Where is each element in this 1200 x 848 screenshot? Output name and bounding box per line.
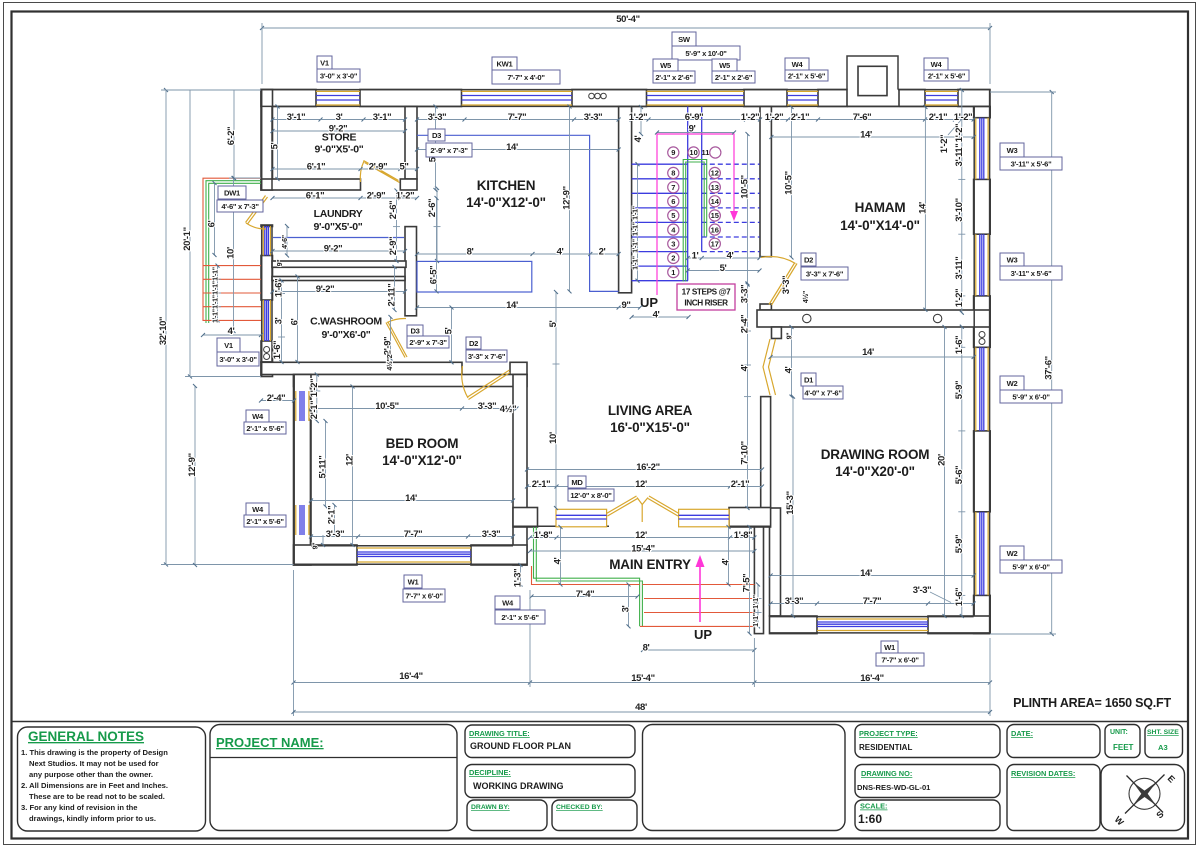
dim 7'-5" porch <box>749 527 751 634</box>
label W1 drawing <box>876 641 924 666</box>
svg-text:15: 15 <box>711 211 719 220</box>
svg-text:8': 8' <box>467 247 474 258</box>
door D2 corridor leaf and arc <box>462 366 510 400</box>
title block separator line <box>12 721 1189 723</box>
svg-text:W3: W3 <box>1007 146 1018 155</box>
svg-text:DRAWING TITLE:: DRAWING TITLE: <box>469 729 530 738</box>
svg-text:1'-1": 1'-1" <box>213 309 220 323</box>
svg-text:DW1: DW1 <box>224 189 241 198</box>
bedroom right wall <box>513 375 527 566</box>
label D3 washroom <box>407 325 449 348</box>
top wall band continuous edge lines <box>261 90 990 107</box>
svg-text:2'-1" x 2'-6": 2'-1" x 2'-6" <box>655 73 693 82</box>
hamam bottom wall column circles <box>803 314 811 322</box>
drawing room bottom wall right block <box>928 616 990 634</box>
svg-text:14'-0"X14'-0": 14'-0"X14'-0" <box>840 218 920 233</box>
svg-text:5': 5' <box>548 320 559 327</box>
svg-text:16: 16 <box>711 225 719 234</box>
window W4 bedroom left b <box>296 505 309 535</box>
svg-text:5': 5' <box>270 142 281 149</box>
svg-text:MD: MD <box>571 478 583 487</box>
svg-text:6'-1": 6'-1" <box>306 191 325 202</box>
top wall band right corner <box>958 90 990 107</box>
svg-text:9'-2": 9'-2" <box>324 244 343 255</box>
dim row store/kitchen top <box>273 119 619 121</box>
svg-text:8: 8 <box>671 169 675 178</box>
svg-text:9: 9 <box>671 148 675 157</box>
svg-text:KW1: KW1 <box>497 60 514 69</box>
svg-text:W4: W4 <box>252 505 264 514</box>
svg-text:PROJECT NAME:: PROJECT NAME: <box>216 735 324 750</box>
svg-text:14'-0"X12'-0": 14'-0"X12'-0" <box>382 453 462 468</box>
svg-text:These are to be read not to be: These are to be read not to be scaled. <box>29 792 165 801</box>
dim 20' drawing room <box>944 327 946 616</box>
svg-text:W2: W2 <box>1007 549 1018 558</box>
svg-text:1'-2": 1'-2" <box>954 124 965 143</box>
svg-text:5'-9" x 6'-0": 5'-9" x 6'-0" <box>1012 563 1050 572</box>
window W4 top a <box>787 91 818 105</box>
dim 4' porch right <box>728 527 730 585</box>
kitchen counter L-line <box>417 135 619 291</box>
svg-text:3'-1": 3'-1" <box>287 112 306 123</box>
svg-text:3'-3": 3'-3" <box>781 276 792 295</box>
svg-text:14': 14' <box>860 568 872 579</box>
svg-text:W3: W3 <box>1007 256 1018 265</box>
title block: compass box <box>1101 765 1185 831</box>
title block: checked by box <box>552 800 637 831</box>
svg-text:C.WASHROOM: C.WASHROOM <box>310 316 382 328</box>
dim laundry-kitchen opening columns <box>393 191 400 262</box>
label W5 a <box>653 59 695 83</box>
svg-text:W1: W1 <box>884 643 896 652</box>
svg-text:GROUND FLOOR PLAN: GROUND FLOOR PLAN <box>470 741 571 751</box>
svg-text:6'-5": 6'-5" <box>429 266 440 285</box>
window W1 bedroom bottom <box>357 548 471 562</box>
dim 2'-9" washroom door <box>390 317 392 359</box>
store bottom wall right part <box>400 179 417 190</box>
dim 10'-5" hamam <box>791 107 793 258</box>
svg-text:17 STEPS @7: 17 STEPS @7 <box>682 288 731 297</box>
svg-text:1'-1": 1'-1" <box>753 613 760 627</box>
dim bottom row 16'-4" 15'-4" 16'-4" <box>294 570 991 716</box>
dim 12' bedroom <box>352 387 354 546</box>
svg-text:3'-0" x 3'-0": 3'-0" x 3'-0" <box>219 355 257 364</box>
svg-text:10'-5": 10'-5" <box>740 175 751 198</box>
svg-text:LAUNDRY: LAUNDRY <box>314 208 363 220</box>
svg-text:2'-9" x 7'-3": 2'-9" x 7'-3" <box>430 146 468 155</box>
label W4 porch <box>495 596 545 624</box>
svg-text:7'-4": 7'-4" <box>576 589 595 600</box>
label D1 <box>801 373 843 399</box>
title block: date box <box>1007 725 1100 758</box>
living bottom wall outer edge segments <box>513 525 771 527</box>
window W4 bedroom left a <box>296 391 309 421</box>
dim 14' bedroom <box>311 500 513 502</box>
side entry green border <box>206 181 261 323</box>
svg-text:12'-9": 12'-9" <box>187 453 198 476</box>
svg-text:3'-3": 3'-3" <box>785 596 804 607</box>
svg-text:PROJECT TYPE:: PROJECT TYPE: <box>859 729 918 738</box>
svg-text:3'-11": 3'-11" <box>954 257 965 280</box>
right wall bottom corner block <box>974 595 991 633</box>
title block: decipline box <box>465 765 635 798</box>
svg-text:1'-2": 1'-2" <box>309 379 320 398</box>
dim 7'-4" entry steps <box>532 596 638 598</box>
svg-text:DATE:: DATE: <box>1011 729 1033 738</box>
svg-text:17: 17 <box>711 240 719 249</box>
svg-text:16'-2": 16'-2" <box>636 462 659 473</box>
svg-text:6'-2": 6'-2" <box>226 127 237 146</box>
dim 9" 4' drawing door <box>791 327 793 397</box>
right wall top corner block <box>974 107 991 118</box>
svg-text:3'-3": 3'-3" <box>326 529 345 540</box>
svg-text:3'-10": 3'-10" <box>954 198 965 221</box>
dim 2'-11" washroom right <box>394 267 396 310</box>
svg-text:3': 3' <box>621 605 632 612</box>
dim 5' 10' living left <box>553 292 560 508</box>
window KW1 <box>462 91 573 105</box>
svg-text:1'-2": 1'-2" <box>741 112 760 123</box>
svg-text:2'-9": 2'-9" <box>367 191 386 202</box>
svg-text:3: 3 <box>671 240 675 249</box>
left wall between laundry and washroom windows <box>261 256 273 301</box>
dim row hamam top <box>771 119 973 121</box>
title block: sheet size box <box>1145 725 1183 758</box>
svg-text:2'-1" x 5'-6": 2'-1" x 5'-6" <box>928 72 966 81</box>
window SW <box>647 91 745 105</box>
window laundry left <box>263 226 270 256</box>
dim 14' hamam <box>771 136 973 138</box>
stair step numbers <box>671 148 720 277</box>
main entry red steps <box>532 566 755 626</box>
dim 50'-4" top <box>262 23 990 84</box>
svg-text:7'-6": 7'-6" <box>853 112 872 123</box>
svg-text:14'-0"X12'-0": 14'-0"X12'-0" <box>466 195 546 210</box>
title block: project type box <box>855 725 1000 758</box>
svg-text:4': 4' <box>557 247 564 258</box>
svg-text:2'-1": 2'-1" <box>532 479 551 490</box>
dim 1'-1' porch steps ticks <box>755 585 762 627</box>
dim row drawing bottom <box>771 603 974 605</box>
dim 9" bedroom corner <box>322 535 324 545</box>
svg-text:1'-1": 1'-1" <box>633 256 640 270</box>
svg-text:2: 2 <box>671 254 675 263</box>
window washroom left <box>263 300 270 341</box>
laundry counter blue line <box>273 237 404 239</box>
label W4 top b <box>924 58 969 81</box>
living area bottom wall left block <box>513 508 538 528</box>
svg-text:2'-4": 2'-4" <box>740 315 751 334</box>
svg-text:7'-7": 7'-7" <box>863 596 882 607</box>
label W3 right b <box>1000 253 1062 280</box>
svg-text:16'-0"X15'-0": 16'-0"X15'-0" <box>610 420 690 435</box>
svg-text:12': 12' <box>635 530 647 541</box>
svg-text:W5: W5 <box>660 61 672 70</box>
dim 6' side steps <box>214 183 216 255</box>
svg-text:UNIT:: UNIT: <box>1110 729 1128 736</box>
svg-text:5'-6": 5'-6" <box>954 466 965 485</box>
svg-text:BED ROOM: BED ROOM <box>386 436 459 451</box>
svg-text:3'-3": 3'-3" <box>428 112 447 123</box>
svg-text:WORKING DRAWING: WORKING DRAWING <box>473 781 564 791</box>
svg-text:3'-3": 3'-3" <box>584 112 603 123</box>
svg-text:V1: V1 <box>224 341 234 350</box>
dim row 1'-8" 12' 1'-8" porch <box>530 537 754 539</box>
svg-text:1'-2": 1'-2" <box>939 135 950 154</box>
svg-text:13: 13 <box>711 183 719 192</box>
svg-text:3. For any kind of revision in: 3. For any kind of revision in the <box>21 803 137 812</box>
dim 6'-5" kitchen counter <box>436 198 438 291</box>
svg-text:10'-5": 10'-5" <box>375 401 398 412</box>
title block: logo empty box <box>643 725 846 831</box>
svg-text:1'-1": 1'-1" <box>633 206 640 220</box>
svg-text:2'-4": 2'-4" <box>267 393 286 404</box>
svg-text:14': 14' <box>405 493 417 504</box>
svg-text:W4: W4 <box>252 412 264 421</box>
svg-text:3'-3" x 7'-6": 3'-3" x 7'-6" <box>468 352 506 361</box>
svg-text:1'-8": 1'-8" <box>734 530 753 541</box>
svg-text:9': 9' <box>689 124 696 135</box>
svg-text:7'-10": 7'-10" <box>740 441 751 464</box>
svg-text:1'-1": 1'-1" <box>633 239 640 253</box>
svg-text:DRAWING NO:: DRAWING NO: <box>861 769 912 778</box>
dim right wall column <box>958 90 965 313</box>
svg-text:12'-0" x 8'-0": 12'-0" x 8'-0" <box>570 491 612 500</box>
svg-text:1. This drawing is the propert: 1. This drawing is the property of Desig… <box>21 748 168 757</box>
dim washroom left column <box>278 281 285 363</box>
svg-text:2'-1" x 5'-6": 2'-1" x 5'-6" <box>246 424 284 433</box>
washroom top wall line <box>272 277 405 281</box>
svg-text:W2: W2 <box>1007 379 1018 388</box>
label DW1 <box>217 186 263 212</box>
title block: revision dates box <box>1007 765 1100 831</box>
bedroom left wall <box>294 375 312 566</box>
svg-text:KITCHEN: KITCHEN <box>477 178 536 193</box>
dim 14' 9" kitchen bottom <box>417 307 640 309</box>
dim 9' stair top <box>657 132 734 134</box>
label W1 bedroom <box>403 575 445 602</box>
svg-text:2. All Dimensions are in Feet: 2. All Dimensions are in Feet and Inches… <box>21 781 168 790</box>
kitchen counter rect <box>417 261 532 292</box>
svg-text:4': 4' <box>784 366 795 373</box>
svg-text:4': 4' <box>633 135 644 142</box>
dim 6'-2" left <box>229 90 261 178</box>
svg-text:FEET: FEET <box>1113 743 1134 752</box>
svg-text:37'-6": 37'-6" <box>1044 356 1055 379</box>
svg-text:UP: UP <box>640 295 658 310</box>
label W4 left a <box>244 410 286 434</box>
right wall continuous edge lines <box>974 90 989 634</box>
dim row store bottom <box>273 168 418 170</box>
title block: drawing title box <box>465 725 635 758</box>
svg-text:9'-2": 9'-2" <box>316 284 335 295</box>
dim 14' kitchen <box>417 149 619 151</box>
svg-text:any purpose other than the own: any purpose other than the owner. <box>29 770 153 779</box>
svg-text:15'-4": 15'-4" <box>631 673 654 684</box>
svg-text:2'-9": 2'-9" <box>369 162 388 173</box>
window W2 right b <box>976 512 988 596</box>
svg-text:3'-11": 3'-11" <box>954 144 965 167</box>
svg-text:9'-0"X5'-0": 9'-0"X5'-0" <box>314 144 363 156</box>
svg-text:11: 11 <box>702 148 710 157</box>
dim 5' store left <box>277 107 279 180</box>
svg-text:2'-1": 2'-1" <box>929 112 948 123</box>
store right wall <box>405 107 417 180</box>
svg-text:4': 4' <box>721 558 732 565</box>
dim 2'-4" bedroom left <box>261 400 294 402</box>
svg-text:4'-6" x 7'-3": 4'-6" x 7'-3" <box>221 202 259 211</box>
leader 3'-3" drawing room <box>930 592 951 603</box>
svg-text:4'-6": 4'-6" <box>282 235 289 249</box>
stair magenta route <box>657 134 734 295</box>
chimney bump <box>847 56 898 90</box>
svg-text:1'-2": 1'-2" <box>954 289 965 308</box>
door MD double leaves <box>607 496 680 522</box>
dim 5' corridor left <box>451 308 453 363</box>
svg-text:REVISION DATES:: REVISION DATES: <box>1011 769 1075 778</box>
svg-text:7'-5": 7'-5" <box>742 574 753 593</box>
svg-text:4': 4' <box>228 326 235 337</box>
svg-text:3'-3": 3'-3" <box>740 285 751 304</box>
label D2 hamam <box>801 253 848 280</box>
svg-text:2'-9" x 7'-3": 2'-9" x 7'-3" <box>409 338 447 347</box>
svg-text:3'-3" x 7'-6": 3'-3" x 7'-6" <box>806 270 844 279</box>
svg-text:1:60: 1:60 <box>858 812 882 826</box>
svg-text:1'-2": 1'-2" <box>765 112 784 123</box>
hamam bottom wall band <box>757 310 990 327</box>
stair treads right flight dashed <box>702 164 760 251</box>
svg-text:W4: W4 <box>792 60 804 69</box>
svg-text:drawings, kindly inform prior: drawings, kindly inform prior to us. <box>29 814 156 823</box>
dim row kitchen counter 8' 4' 2' <box>417 253 619 255</box>
svg-text:4': 4' <box>653 310 660 321</box>
svg-text:4½": 4½" <box>500 404 517 415</box>
svg-text:DRAWING ROOM: DRAWING ROOM <box>821 447 930 462</box>
window W1 drawing room bottom <box>817 619 928 631</box>
stair note box 17 steps <box>677 284 735 310</box>
svg-text:5'-9": 5'-9" <box>954 535 965 554</box>
svg-text:6'-9": 6'-9" <box>685 112 704 123</box>
left wall segment below DW1 <box>261 225 273 227</box>
dim 14' drawing room top <box>771 356 974 358</box>
svg-text:3'-0" x 3'-0": 3'-0" x 3'-0" <box>320 72 358 81</box>
door D1 folding <box>763 339 776 395</box>
window W3 right a <box>976 118 988 180</box>
kitchen left wall <box>405 227 417 316</box>
dim 1'-1" stairwell ticks <box>637 164 639 281</box>
svg-text:Next Studios. It may not be us: Next Studios. It may not be used for <box>29 759 159 768</box>
svg-text:1'-2": 1'-2" <box>396 191 415 202</box>
svg-text:15'-3": 15'-3" <box>785 491 796 514</box>
window W2 right a <box>976 347 988 431</box>
svg-text:10'-5": 10'-5" <box>784 171 795 194</box>
svg-text:14'-0"X20'-0": 14'-0"X20'-0" <box>835 464 915 479</box>
svg-text:DNS-RES-WD-GL-01: DNS-RES-WD-GL-01 <box>857 783 931 792</box>
top wall band segment left corner <box>261 90 316 107</box>
svg-text:5': 5' <box>444 327 455 334</box>
svg-text:DRAWN BY:: DRAWN BY: <box>471 804 510 811</box>
dim 4' stairwell top <box>640 107 642 134</box>
dim 1'-3" porch left <box>520 565 522 585</box>
svg-text:14': 14' <box>862 347 874 358</box>
title block: drawing no box <box>855 765 1000 798</box>
svg-text:9'-0"X6'-0": 9'-0"X6'-0" <box>321 329 370 341</box>
dim 12'-9" left <box>194 386 196 565</box>
svg-text:6': 6' <box>290 318 301 325</box>
svg-text:12: 12 <box>711 169 719 178</box>
svg-text:D2: D2 <box>804 256 813 265</box>
svg-text:2'-9": 2'-9" <box>388 237 399 256</box>
window W3 right b <box>976 234 988 296</box>
svg-text:3'-11" x 5'-6": 3'-11" x 5'-6" <box>1011 160 1053 169</box>
svg-text:3'-3": 3'-3" <box>482 529 501 540</box>
svg-text:STORE: STORE <box>322 132 357 144</box>
svg-text:4½"2': 4½"2' <box>386 353 394 371</box>
dim row 2'-1" 12' 2'-1" living <box>527 486 762 488</box>
stair stringer blue verticals <box>687 107 689 281</box>
dim 12'-9" kitchen <box>569 107 571 292</box>
window W4 top b <box>925 91 958 105</box>
svg-text:W5: W5 <box>719 61 731 70</box>
dim 3' entry steps <box>628 585 630 627</box>
svg-text:7'-7": 7'-7" <box>508 112 527 123</box>
svg-text:50'-4": 50'-4" <box>616 14 639 25</box>
label W2 right b <box>1000 546 1062 573</box>
svg-text:2'-6": 2'-6" <box>388 201 399 220</box>
svg-text:4': 4' <box>727 251 734 262</box>
title block: project name box <box>210 725 457 831</box>
dim row corridor <box>273 197 418 199</box>
label W2 right a <box>1000 376 1062 403</box>
drawing room bottom wall continuous edge lines <box>770 617 990 633</box>
compass rose <box>1129 778 1160 809</box>
right wall OO vent block <box>974 327 991 348</box>
side entry red steps <box>203 178 261 321</box>
stair green railing U <box>683 160 707 282</box>
svg-text:SCALE:: SCALE: <box>860 802 888 811</box>
left wall OO vent block <box>261 341 273 362</box>
left wall bottom stub <box>261 362 273 377</box>
svg-text:14': 14' <box>506 300 518 311</box>
svg-text:16'-4": 16'-4" <box>399 671 422 682</box>
dim 10' side steps <box>233 178 235 331</box>
svg-text:3': 3' <box>336 112 343 123</box>
svg-text:MAIN ENTRY: MAIN ENTRY <box>609 557 691 572</box>
svg-text:2'-6": 2'-6" <box>427 199 438 218</box>
bedroom bottom wall right block <box>471 545 527 565</box>
dim 4'-6" laundry window <box>286 226 288 256</box>
svg-text:5': 5' <box>720 263 727 274</box>
svg-text:10': 10' <box>548 432 559 444</box>
svg-text:14: 14 <box>711 197 720 206</box>
svg-text:2'-11": 2'-11" <box>387 284 398 307</box>
svg-text:V1: V1 <box>320 59 330 68</box>
svg-text:8': 8' <box>643 643 650 654</box>
svg-text:9'-0"X5'-0": 9'-0"X5'-0" <box>313 221 362 233</box>
right wall block below W3b <box>974 296 991 327</box>
svg-text:20': 20' <box>937 454 948 466</box>
svg-text:SW: SW <box>678 35 691 44</box>
dim 9'-2" store <box>273 130 406 132</box>
svg-text:10: 10 <box>689 148 697 157</box>
dim 14' drawing room <box>771 575 974 577</box>
svg-text:3': 3' <box>274 317 285 324</box>
dim 10'-5" stairwell <box>747 134 749 285</box>
svg-text:9": 9" <box>313 543 320 550</box>
svg-text:LIVING AREA: LIVING AREA <box>608 403 693 418</box>
svg-text:2'-1" x 5'-6": 2'-1" x 5'-6" <box>501 613 539 622</box>
svg-text:2'-9": 2'-9" <box>383 337 394 356</box>
